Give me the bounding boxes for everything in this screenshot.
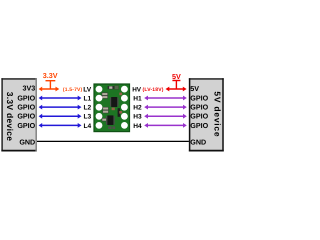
ground wire GND-GND — [36, 140, 189, 142]
svg-text:GND: GND — [190, 138, 206, 146]
svg-text:GPIO: GPIO — [17, 104, 35, 112]
pad H2 — [121, 104, 128, 111]
wire 5V supply HV-5V (red double arrow) — [166, 87, 187, 92]
svg-text:GPIO: GPIO — [190, 122, 208, 130]
pad H3 — [121, 113, 128, 120]
wire H2 H2-GPIO (purple double arrow) — [144, 105, 187, 110]
component top-right square — [115, 86, 119, 90]
svg-text:3.3V: 3.3V — [43, 71, 58, 80]
pad L2 — [96, 104, 103, 111]
wire H3 H3-GPIO (purple double arrow) — [144, 114, 187, 119]
svg-text:GPIO: GPIO — [17, 113, 35, 121]
component right small A — [119, 93, 122, 96]
component mid vertical dark — [118, 108, 121, 117]
pad LV — [96, 86, 103, 93]
svg-text:HV: HV — [132, 87, 142, 94]
pad H1 — [121, 95, 128, 102]
resistor R7 — [102, 118, 106, 121]
pad L3 — [96, 113, 103, 120]
transistor Q1 — [110, 97, 119, 107]
resistor R2 — [102, 96, 108, 99]
wire 3.3V supply 3V3-LV (orange double arrow) — [39, 87, 60, 92]
capacitor C1 top — [108, 86, 115, 89]
svg-text:GND: GND — [19, 138, 35, 146]
svg-text:H3: H3 — [133, 114, 142, 121]
level shifter board PCB — [94, 84, 130, 132]
svg-text:LV: LV — [83, 87, 92, 94]
svg-text:L4: L4 — [83, 123, 91, 130]
svg-text:GPIO: GPIO — [17, 122, 35, 130]
svg-text:L1: L1 — [83, 96, 91, 103]
svg-text:GPIO: GPIO — [190, 104, 208, 112]
svg-text:GPIO: GPIO — [17, 95, 35, 103]
component right small B — [119, 111, 122, 114]
component mid tan — [112, 108, 115, 111]
5V device box — [189, 78, 224, 151]
svg-text:H1: H1 — [133, 96, 142, 103]
transistor Q2 — [106, 115, 115, 125]
svg-text:(LV-18V): (LV-18V) — [143, 87, 164, 93]
svg-text:GPIO: GPIO — [190, 113, 208, 121]
svg-text:L3: L3 — [83, 114, 91, 121]
net label 5V — [172, 72, 181, 89]
svg-text:3V3: 3V3 — [22, 85, 35, 93]
wire L3 GPIO-L3 (blue double arrow) — [39, 114, 82, 119]
net label 3.3V — [43, 71, 58, 89]
resistor R5 — [103, 107, 109, 110]
svg-text:5V: 5V — [190, 85, 199, 93]
svg-text:5V device: 5V device — [213, 91, 223, 137]
wire L4 GPIO-L4 (blue double arrow) — [39, 123, 82, 128]
resistor R1 — [102, 93, 108, 96]
svg-text:3.3V device: 3.3V device — [5, 92, 15, 142]
svg-text:(1.5-7V): (1.5-7V) — [63, 87, 83, 93]
wire L2 GPIO-L2 (blue double arrow) — [39, 105, 82, 110]
wire H4 H4-GPIO (purple double arrow) — [144, 123, 187, 128]
svg-text:GPIO: GPIO — [190, 95, 208, 103]
svg-text:H2: H2 — [133, 105, 142, 112]
svg-text:5V: 5V — [172, 72, 181, 81]
pad HV — [121, 86, 128, 93]
3.3V device box — [1, 78, 37, 151]
resistor R6 — [103, 110, 109, 113]
pad H4 — [121, 122, 128, 129]
wire H1 H1-GPIO (purple double arrow) — [144, 96, 187, 101]
component bottom-mid A — [108, 126, 111, 129]
svg-text:L2: L2 — [83, 105, 91, 112]
component bottom-mid B — [112, 126, 115, 129]
pad L1 — [96, 95, 103, 102]
wire L1 GPIO-L1 (blue double arrow) — [39, 96, 82, 101]
svg-text:H4: H4 — [133, 123, 142, 130]
pad L4 — [96, 122, 103, 129]
